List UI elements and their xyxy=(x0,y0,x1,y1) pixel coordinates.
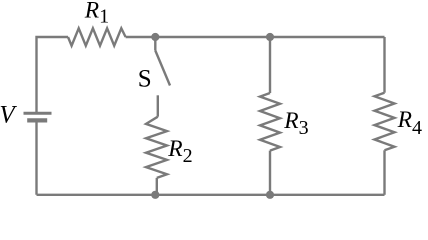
resistor R2 xyxy=(146,117,167,178)
wire right-bottom segment xyxy=(383,150,385,195)
wire bottom xyxy=(37,194,385,196)
switch S lower contact xyxy=(157,95,159,116)
node junction dot top (switch branch) xyxy=(151,33,159,41)
svg-text:V: V xyxy=(0,102,17,129)
node junction dot bottom (R2 branch) xyxy=(151,191,159,199)
wire R2 to bottom xyxy=(156,178,158,195)
svg-text:R2: R2 xyxy=(167,136,192,167)
wire R3 branch top xyxy=(269,37,271,93)
wire R3 branch bottom xyxy=(269,151,271,195)
svg-text:R4: R4 xyxy=(397,107,422,139)
node junction dot top (R3 branch) xyxy=(266,33,274,41)
wire top right segment xyxy=(126,36,385,38)
resistor R3 xyxy=(260,93,280,151)
node junction dot bottom (R3 branch) xyxy=(266,191,274,199)
wire top-left segment xyxy=(37,37,69,112)
battery V top plate xyxy=(24,112,52,115)
resistor R1 xyxy=(68,28,126,45)
wire right side xyxy=(383,37,385,93)
switch S stub xyxy=(154,37,156,51)
resistor R4 xyxy=(375,93,395,151)
svg-text:R3: R3 xyxy=(283,108,308,139)
svg-text:R1: R1 xyxy=(84,0,109,28)
wire left-bottom segment xyxy=(35,122,37,195)
battery V bottom plate xyxy=(27,118,47,122)
svg-text:S: S xyxy=(138,66,152,93)
switch S blade xyxy=(155,51,170,86)
